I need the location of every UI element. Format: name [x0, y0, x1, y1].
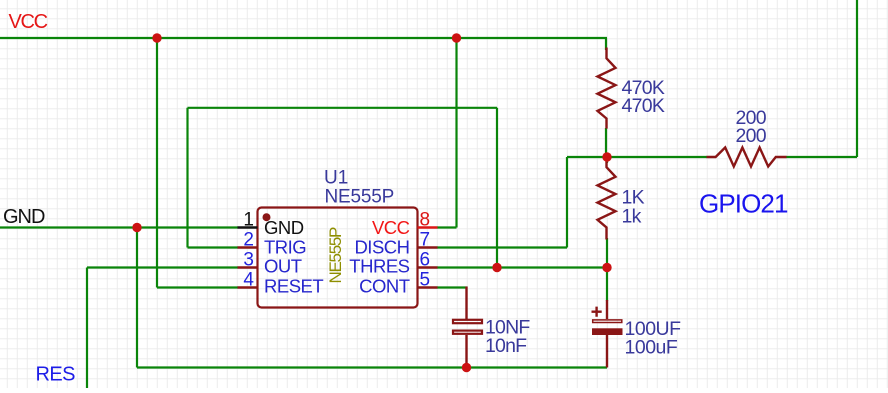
wire TRIG-THRES top horizontal [188, 107, 498, 109]
U1 pin 4 stub [238, 286, 258, 288]
junction THRES wire [492, 263, 501, 272]
U1 pin1 mark dot [263, 213, 271, 221]
svg-text:U1: U1 [324, 167, 348, 188]
junction GND [132, 223, 141, 232]
svg-text:OUT: OUT [264, 256, 302, 277]
capacitor C2 plate bottom [592, 328, 623, 335]
U1 pin 1 stub [238, 226, 258, 228]
capacitor C2 plate top [593, 320, 622, 323]
resistor R3 1K body [598, 162, 616, 240]
resistor R1 470K body [598, 48, 616, 129]
svg-text:6: 6 [420, 250, 431, 271]
capacitor C1 lead bottom [465, 335, 467, 368]
capacitor C2 100UF lead top [606, 300, 608, 319]
capacitor C1 10NF lead top [465, 287, 467, 320]
wire GND drop vertical [136, 228, 138, 368]
wire right edge riser [856, 0, 858, 157]
U1 pin 8 stub [418, 226, 438, 228]
U1 pin 5 stub [418, 286, 438, 288]
wire GND horizontal to pin 1 [0, 226, 238, 228]
svg-text:1k: 1k [622, 206, 642, 228]
U1 pin 6 stub [418, 266, 438, 268]
svg-text:THRES: THRES [349, 256, 409, 277]
capacitor C1 plate bottom [453, 331, 482, 334]
wire TRIG horizontal to pin 2 [188, 246, 239, 248]
capacitor C1 plate top [453, 320, 482, 323]
U1 pin 2 stub [238, 246, 258, 248]
U1 pin 3 stub [238, 266, 258, 268]
svg-text:10nF: 10nF [485, 335, 527, 357]
svg-text:GND: GND [264, 217, 304, 238]
wire C2 top green [606, 268, 608, 302]
svg-text:VCC: VCC [9, 11, 48, 33]
wire THRES horizontal pin6 to R3 [437, 266, 607, 268]
U1 pin 7 stub [418, 246, 438, 248]
wire pin8 horizontal [437, 226, 457, 228]
svg-text:2: 2 [243, 230, 254, 251]
wire DISCH riser vertical [566, 157, 568, 248]
svg-text:4: 4 [243, 270, 254, 291]
capacitor C2 lead bottom [606, 335, 608, 368]
wire R1 bottom to node [605, 128, 607, 157]
wire bottom net horizontal [137, 366, 607, 368]
resistor R2 200 body [707, 148, 787, 167]
capacitor C2 plus sign [592, 307, 602, 317]
svg-text:VCC: VCC [372, 217, 410, 238]
wire VCC top horizontal [0, 37, 607, 39]
wire TRIG riser vertical [186, 108, 188, 248]
svg-text:470K: 470K [622, 95, 665, 117]
wire R3 top lead green [606, 157, 608, 163]
svg-text:100uF: 100uF [625, 336, 678, 358]
wire pin8 riser vertical [455, 38, 457, 228]
junction at VCC/RESET riser [152, 33, 161, 42]
svg-text:8: 8 [420, 210, 431, 231]
wire RESET horizontal to pin 4 [157, 286, 238, 288]
svg-text:GND: GND [3, 206, 45, 228]
svg-text:NE555P: NE555P [325, 186, 395, 207]
svg-text:RES: RES [36, 364, 76, 386]
wire VCC riser to R1 top [605, 38, 607, 50]
wire CONT horizontal pin5 [437, 286, 468, 288]
svg-text:RESET: RESET [264, 276, 323, 297]
svg-text:3: 3 [243, 250, 254, 271]
junction divider node [602, 152, 611, 161]
wire THRES drop vertical [496, 108, 498, 268]
op-amp U1 body NE555P [258, 208, 418, 308]
junction R3 bottom [602, 263, 611, 272]
svg-text:NE555P: NE555P [326, 227, 345, 283]
svg-text:200: 200 [736, 125, 767, 147]
wire node to R2 lead [607, 156, 707, 158]
wire node row horizontal left [567, 156, 607, 158]
svg-text:GPIO21: GPIO21 [699, 188, 788, 218]
svg-text:CONT: CONT [359, 276, 410, 297]
wire RES drop vertical [86, 268, 88, 389]
svg-text:1: 1 [243, 210, 254, 231]
svg-text:5: 5 [420, 270, 431, 291]
junction at VCC/pin8 riser [452, 33, 461, 42]
junction C1 bottom [462, 363, 471, 372]
wire DISCH horizontal pin7 [437, 246, 567, 248]
wire RESET riser vertical [156, 38, 158, 288]
wire R3 bottom to THRES junction [606, 238, 608, 268]
wire R2 right to corner [786, 156, 857, 158]
svg-text:7: 7 [420, 230, 431, 251]
wire OUT horizontal from pin 3 [87, 266, 238, 268]
